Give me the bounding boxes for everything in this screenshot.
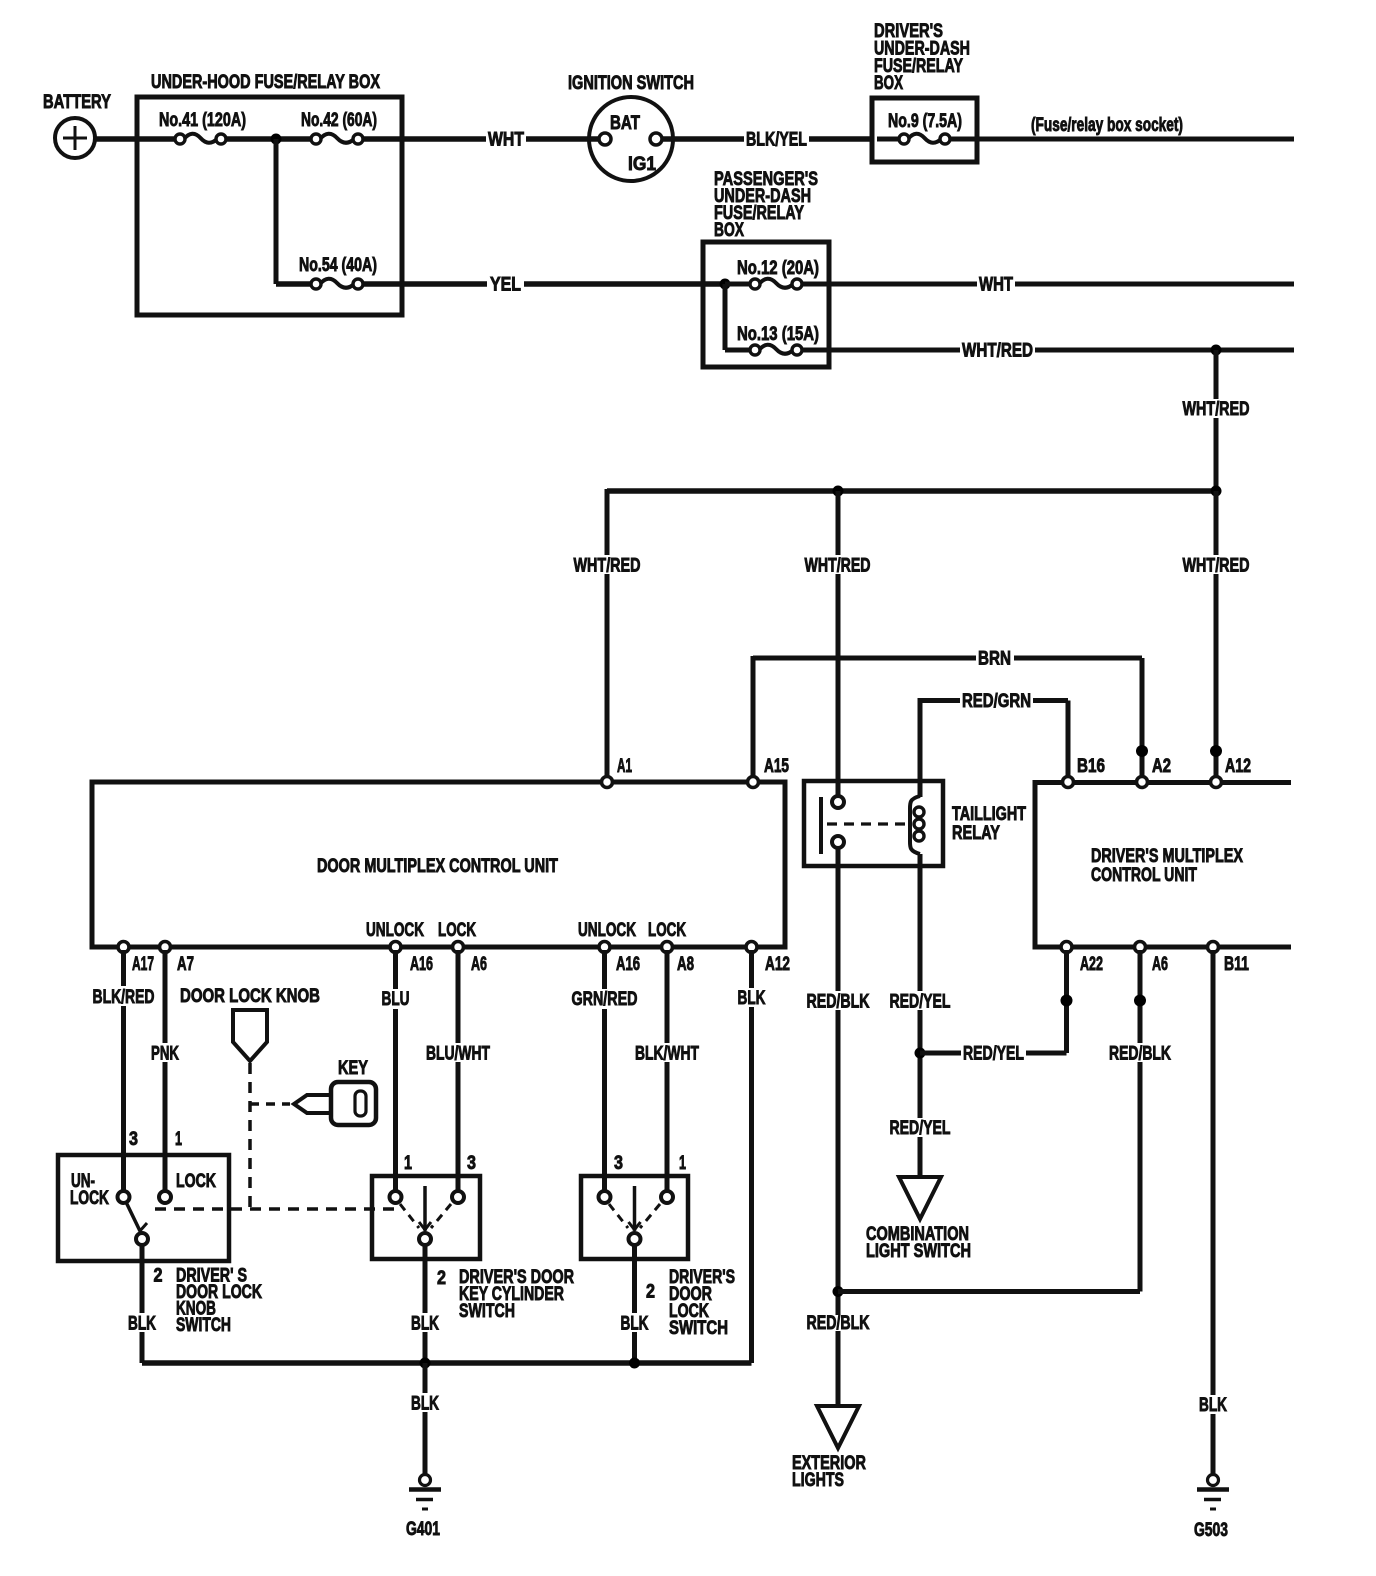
wire to fuse/relay box socket bbox=[950, 115, 1294, 139]
under-hood fuse/relay box bbox=[137, 72, 402, 315]
knob switch name bbox=[176, 1266, 262, 1337]
svg-text:LOCK: LOCK bbox=[648, 920, 686, 941]
pin A22 bbox=[1061, 942, 1103, 976]
pin B16 bbox=[1063, 756, 1106, 788]
svg-text:2: 2 bbox=[154, 1266, 163, 1287]
junction node RED/YEL bbox=[915, 1048, 926, 1059]
svg-text:LIGHT SWITCH: LIGHT SWITCH bbox=[866, 1241, 971, 1262]
svg-text:TAILLIGHT: TAILLIGHT bbox=[952, 804, 1026, 825]
svg-text:SWITCH: SWITCH bbox=[176, 1315, 231, 1336]
lock switch common terminal 2 bbox=[629, 1233, 641, 1245]
ground G503 bbox=[1194, 1475, 1229, 1542]
svg-text:BLU: BLU bbox=[382, 989, 410, 1010]
svg-text:3: 3 bbox=[614, 1153, 623, 1174]
svg-text:No.13 (15A): No.13 (15A) bbox=[737, 324, 819, 345]
fuse No.42 (60A) bbox=[301, 110, 377, 144]
wire PNK A7 to knob switch bbox=[163, 950, 168, 1192]
driver's multiplex control unit box bbox=[1035, 783, 1291, 948]
svg-text:BLK: BLK bbox=[411, 1314, 439, 1335]
driver's door lock knob switch box bbox=[58, 1155, 229, 1261]
svg-text:SWITCH: SWITCH bbox=[669, 1318, 728, 1339]
svg-text:LOCK: LOCK bbox=[438, 920, 476, 941]
svg-text:BLK/RED: BLK/RED bbox=[93, 987, 155, 1008]
fuse No.41 (120A) bbox=[159, 110, 246, 144]
svg-text:No.54 (40A): No.54 (40A) bbox=[299, 255, 377, 276]
svg-text:A17: A17 bbox=[132, 954, 154, 975]
splice dot on A22 drop bbox=[1061, 995, 1073, 1007]
knob switch common terminal 2 bbox=[136, 1233, 148, 1245]
svg-text:BOX: BOX bbox=[874, 73, 903, 94]
door lock knob symbol bbox=[180, 986, 320, 1061]
wire WHT/RED to A12 bbox=[1214, 491, 1219, 780]
pin A15 bbox=[748, 756, 790, 788]
battery bbox=[43, 92, 111, 158]
svg-text:RED/BLK: RED/BLK bbox=[1109, 1044, 1171, 1065]
key symbol bbox=[250, 1058, 376, 1125]
svg-text:BATTERY: BATTERY bbox=[43, 92, 111, 113]
lock switch linkage dashes bbox=[609, 1204, 660, 1228]
svg-text:WHT/RED: WHT/RED bbox=[1183, 399, 1250, 420]
splice dot on A6 drop bbox=[1134, 995, 1146, 1007]
exterior lights arrow bbox=[792, 1406, 866, 1491]
wire BLK/RED A17 to knob switch bbox=[121, 950, 126, 1192]
knob switch terminal 1 bbox=[159, 1191, 171, 1203]
svg-text:LOCK: LOCK bbox=[176, 1171, 216, 1192]
svg-text:WHT/RED: WHT/RED bbox=[574, 556, 641, 577]
svg-text:BLK/YEL: BLK/YEL bbox=[746, 130, 807, 151]
svg-text:IG1: IG1 bbox=[628, 154, 656, 175]
svg-text:RED/YEL: RED/YEL bbox=[890, 1118, 951, 1139]
svg-text:WHT/RED: WHT/RED bbox=[1183, 556, 1250, 577]
svg-text:RED/BLK: RED/BLK bbox=[807, 1313, 870, 1334]
svg-text:PNK: PNK bbox=[151, 1044, 179, 1065]
svg-text:DOOR MULTIPLEX CONTROL UNIT: DOOR MULTIPLEX CONTROL UNIT bbox=[317, 856, 558, 877]
svg-text:1: 1 bbox=[679, 1153, 686, 1174]
pin A8 bbox=[662, 942, 695, 976]
pin A16 (lock) bbox=[599, 942, 640, 976]
junction node RED/BLK bbox=[833, 1286, 844, 1297]
svg-text:BAT: BAT bbox=[610, 113, 640, 134]
combination light switch arrow bbox=[866, 1177, 971, 1262]
wire RED/BLK relay switch to exterior lights bbox=[836, 847, 841, 1405]
wire WHT fuse12 to right bbox=[802, 282, 1294, 287]
wire WHT/RED to taillight relay switch bbox=[836, 491, 841, 797]
knob switch terminal 3 bbox=[118, 1191, 130, 1203]
knob switch lever bbox=[126, 1202, 147, 1232]
pin A7 bbox=[160, 942, 195, 976]
splice dot on A12 wire bbox=[1210, 745, 1222, 757]
junction node fuse41/fuse42/fuse54 bbox=[271, 134, 282, 145]
svg-text:UNLOCK: UNLOCK bbox=[578, 920, 636, 941]
ground bus BLK bbox=[142, 1360, 752, 1366]
svg-text:BOX: BOX bbox=[714, 220, 744, 241]
key switch common terminal 2 bbox=[419, 1233, 431, 1245]
svg-text:No.42 (60A): No.42 (60A) bbox=[301, 110, 377, 131]
lock switch lever bbox=[629, 1186, 641, 1231]
svg-text:A7: A7 bbox=[177, 954, 194, 975]
driver's door lock switch box bbox=[581, 1176, 688, 1259]
svg-text:DOOR LOCK KNOB: DOOR LOCK KNOB bbox=[180, 986, 320, 1007]
svg-text:1: 1 bbox=[175, 1129, 182, 1150]
junction node bus-relay bbox=[833, 486, 844, 497]
svg-text:BLK: BLK bbox=[738, 988, 766, 1009]
driver's door key cylinder switch box bbox=[372, 1176, 480, 1259]
svg-text:BLU/WHT: BLU/WHT bbox=[426, 1044, 490, 1065]
fuse No.9 (7.5A) bbox=[877, 111, 962, 144]
bus WHT/RED horizontal bbox=[607, 488, 1216, 494]
pin A12 (driver unit top) bbox=[1211, 756, 1252, 788]
lock switch terminal 1 bbox=[661, 1191, 673, 1203]
svg-text:BLK/WHT: BLK/WHT bbox=[635, 1044, 699, 1065]
key switch linkage dashes bbox=[400, 1204, 451, 1228]
passenger's under-dash fuse/relay box bbox=[703, 169, 829, 367]
fuse No.13 (15A) bbox=[725, 324, 819, 355]
svg-text:A1: A1 bbox=[617, 756, 632, 777]
splice dot on A2 wire bbox=[1136, 745, 1148, 757]
driver's under-dash fuse/relay box bbox=[872, 21, 977, 162]
fuse No.54 (40A) bbox=[276, 255, 377, 289]
wire WHT/RED vertical to bus bbox=[1214, 350, 1219, 491]
svg-text:2: 2 bbox=[437, 1268, 446, 1289]
svg-text:RELAY: RELAY bbox=[952, 823, 1000, 844]
wire RED/YEL relay coil to combination light switch bbox=[918, 854, 923, 1176]
svg-text:3: 3 bbox=[129, 1129, 138, 1150]
wire WHT/RED fuse13 to right bbox=[802, 348, 1294, 353]
pin B11 bbox=[1208, 942, 1250, 976]
svg-text:B16: B16 bbox=[1077, 756, 1105, 777]
pin A12 (door unit) bbox=[746, 942, 790, 976]
svg-text:BLK: BLK bbox=[621, 1314, 649, 1335]
svg-text:A8: A8 bbox=[677, 954, 694, 975]
wire BLK lock switch to ground bus bbox=[632, 1245, 637, 1363]
junction node bus-A12 bbox=[1211, 486, 1222, 497]
svg-text:DRIVER'S MULTIPLEX: DRIVER'S MULTIPLEX bbox=[1091, 846, 1243, 867]
svg-text:KEY: KEY bbox=[338, 1058, 368, 1079]
junction node bus-lock switch bbox=[629, 1358, 640, 1369]
junction node passenger box feed bbox=[720, 279, 731, 351]
svg-text:No.9 (7.5A): No.9 (7.5A) bbox=[888, 111, 962, 132]
svg-text:WHT/RED: WHT/RED bbox=[962, 341, 1033, 362]
wire BLK/YEL ignition to driver's under-dash box bbox=[662, 136, 874, 142]
svg-text:UNDER-HOOD FUSE/RELAY BOX: UNDER-HOOD FUSE/RELAY BOX bbox=[151, 72, 380, 93]
pin A2 bbox=[1137, 756, 1172, 788]
wire WHT fuse42 to ignition switch bbox=[363, 136, 599, 142]
wire BLU/WHT A6 to key cylinder switch bbox=[456, 950, 461, 1192]
wire fuse41 to junction and fuse42 bbox=[226, 136, 316, 142]
svg-text:BLK: BLK bbox=[128, 1314, 156, 1335]
svg-text:WHT: WHT bbox=[488, 130, 524, 151]
svg-text:1: 1 bbox=[404, 1153, 412, 1174]
junction node bus-G401 bbox=[420, 1358, 431, 1369]
svg-text:2: 2 bbox=[646, 1282, 655, 1303]
svg-text:No.41 (120A): No.41 (120A) bbox=[159, 110, 246, 131]
pin A6 bbox=[453, 942, 488, 976]
key cylinder switch name bbox=[459, 1267, 574, 1322]
svg-text:YEL: YEL bbox=[490, 275, 521, 296]
svg-text:A16: A16 bbox=[410, 954, 433, 975]
svg-text:A6: A6 bbox=[1152, 954, 1168, 975]
svg-text:RED/YEL: RED/YEL bbox=[890, 992, 951, 1013]
wire RED/GRN relay coil to B16 bbox=[920, 698, 1068, 797]
svg-text:WHT: WHT bbox=[979, 275, 1013, 296]
wire RED/BLK A6 branch bbox=[838, 950, 1140, 1292]
svg-text:BLK: BLK bbox=[1199, 1395, 1227, 1416]
wire BLK knob switch to ground bus bbox=[140, 1245, 145, 1363]
svg-text:WHT/RED: WHT/RED bbox=[805, 556, 871, 577]
svg-text:RED/BLK: RED/BLK bbox=[807, 992, 870, 1013]
svg-text:GRN/RED: GRN/RED bbox=[572, 989, 638, 1010]
svg-text:BLK: BLK bbox=[411, 1394, 439, 1415]
ignition switch bbox=[568, 73, 694, 181]
key switch terminal 3 bbox=[452, 1191, 464, 1203]
key switch terminal 1 bbox=[390, 1191, 402, 1203]
wire BLU A16 to key cylinder switch bbox=[393, 950, 398, 1192]
wire WHT/RED A15 drop bbox=[751, 656, 756, 780]
wire BLK bus to G401 bbox=[423, 1363, 428, 1474]
pin A6 (driver unit) bbox=[1135, 942, 1169, 976]
svg-text:G401: G401 bbox=[406, 1519, 440, 1540]
key switch lever bbox=[419, 1186, 431, 1231]
pin A16 bbox=[390, 942, 433, 976]
wire RED/YEL A22 branch bbox=[920, 950, 1067, 1053]
linkage dashed knob to switches bbox=[155, 1063, 398, 1209]
svg-text:3: 3 bbox=[467, 1153, 476, 1174]
wire BLK B11 to G503 bbox=[1211, 950, 1216, 1474]
wire BLK/WHT A8 to door lock switch bbox=[665, 950, 670, 1192]
wire WHT battery to under-hood box bbox=[95, 136, 176, 142]
svg-text:LIGHTS: LIGHTS bbox=[792, 1470, 844, 1491]
svg-text:A6: A6 bbox=[471, 954, 487, 975]
wire WHT/RED to A1 bbox=[605, 489, 610, 780]
svg-text:A15: A15 bbox=[764, 756, 789, 777]
door lock switch name bbox=[669, 1267, 735, 1339]
svg-text:A2: A2 bbox=[1152, 756, 1171, 777]
svg-text:UNLOCK: UNLOCK bbox=[366, 920, 424, 941]
svg-text:A12: A12 bbox=[765, 954, 790, 975]
door multiplex control unit box bbox=[92, 782, 785, 947]
svg-text:No.12 (20A): No.12 (20A) bbox=[737, 258, 819, 279]
svg-text:CONTROL UNIT: CONTROL UNIT bbox=[1091, 865, 1197, 886]
svg-text:A12: A12 bbox=[1225, 756, 1251, 777]
svg-text:SWITCH: SWITCH bbox=[459, 1301, 515, 1322]
wire GRN/RED A16 to door lock switch bbox=[602, 950, 607, 1192]
wire YEL fuse54 to passenger box bbox=[363, 281, 722, 287]
svg-text:B11: B11 bbox=[1224, 954, 1249, 975]
junction node WHT/RED branch bbox=[1211, 345, 1222, 356]
svg-text:G503: G503 bbox=[1194, 1520, 1228, 1541]
lock switch terminal 3 bbox=[599, 1191, 611, 1203]
svg-text:BRN: BRN bbox=[978, 649, 1011, 670]
wire BLK key switch to ground bus bbox=[423, 1245, 428, 1363]
svg-text:LOCK: LOCK bbox=[70, 1188, 109, 1209]
fuse No.12 (20A) bbox=[725, 258, 819, 289]
taillight relay bbox=[804, 781, 1026, 866]
svg-text:A22: A22 bbox=[1080, 954, 1103, 975]
svg-text:RED/YEL: RED/YEL bbox=[963, 1044, 1024, 1065]
svg-text:A16: A16 bbox=[616, 954, 640, 975]
wire junction down to fuse54 bbox=[274, 139, 279, 284]
svg-text:RED/GRN: RED/GRN bbox=[962, 691, 1031, 712]
label UN-LOCK bbox=[70, 1171, 109, 1209]
pin A1 bbox=[602, 756, 633, 788]
svg-text:(Fuse/relay box socket): (Fuse/relay box socket) bbox=[1031, 115, 1183, 136]
wire BLK A12 to ground bus bbox=[749, 950, 754, 1363]
pin A17 bbox=[118, 942, 154, 976]
svg-text:IGNITION SWITCH: IGNITION SWITCH bbox=[568, 73, 694, 94]
wire BRN A15 to A2 bbox=[753, 658, 1142, 780]
ground G401 bbox=[406, 1475, 441, 1541]
